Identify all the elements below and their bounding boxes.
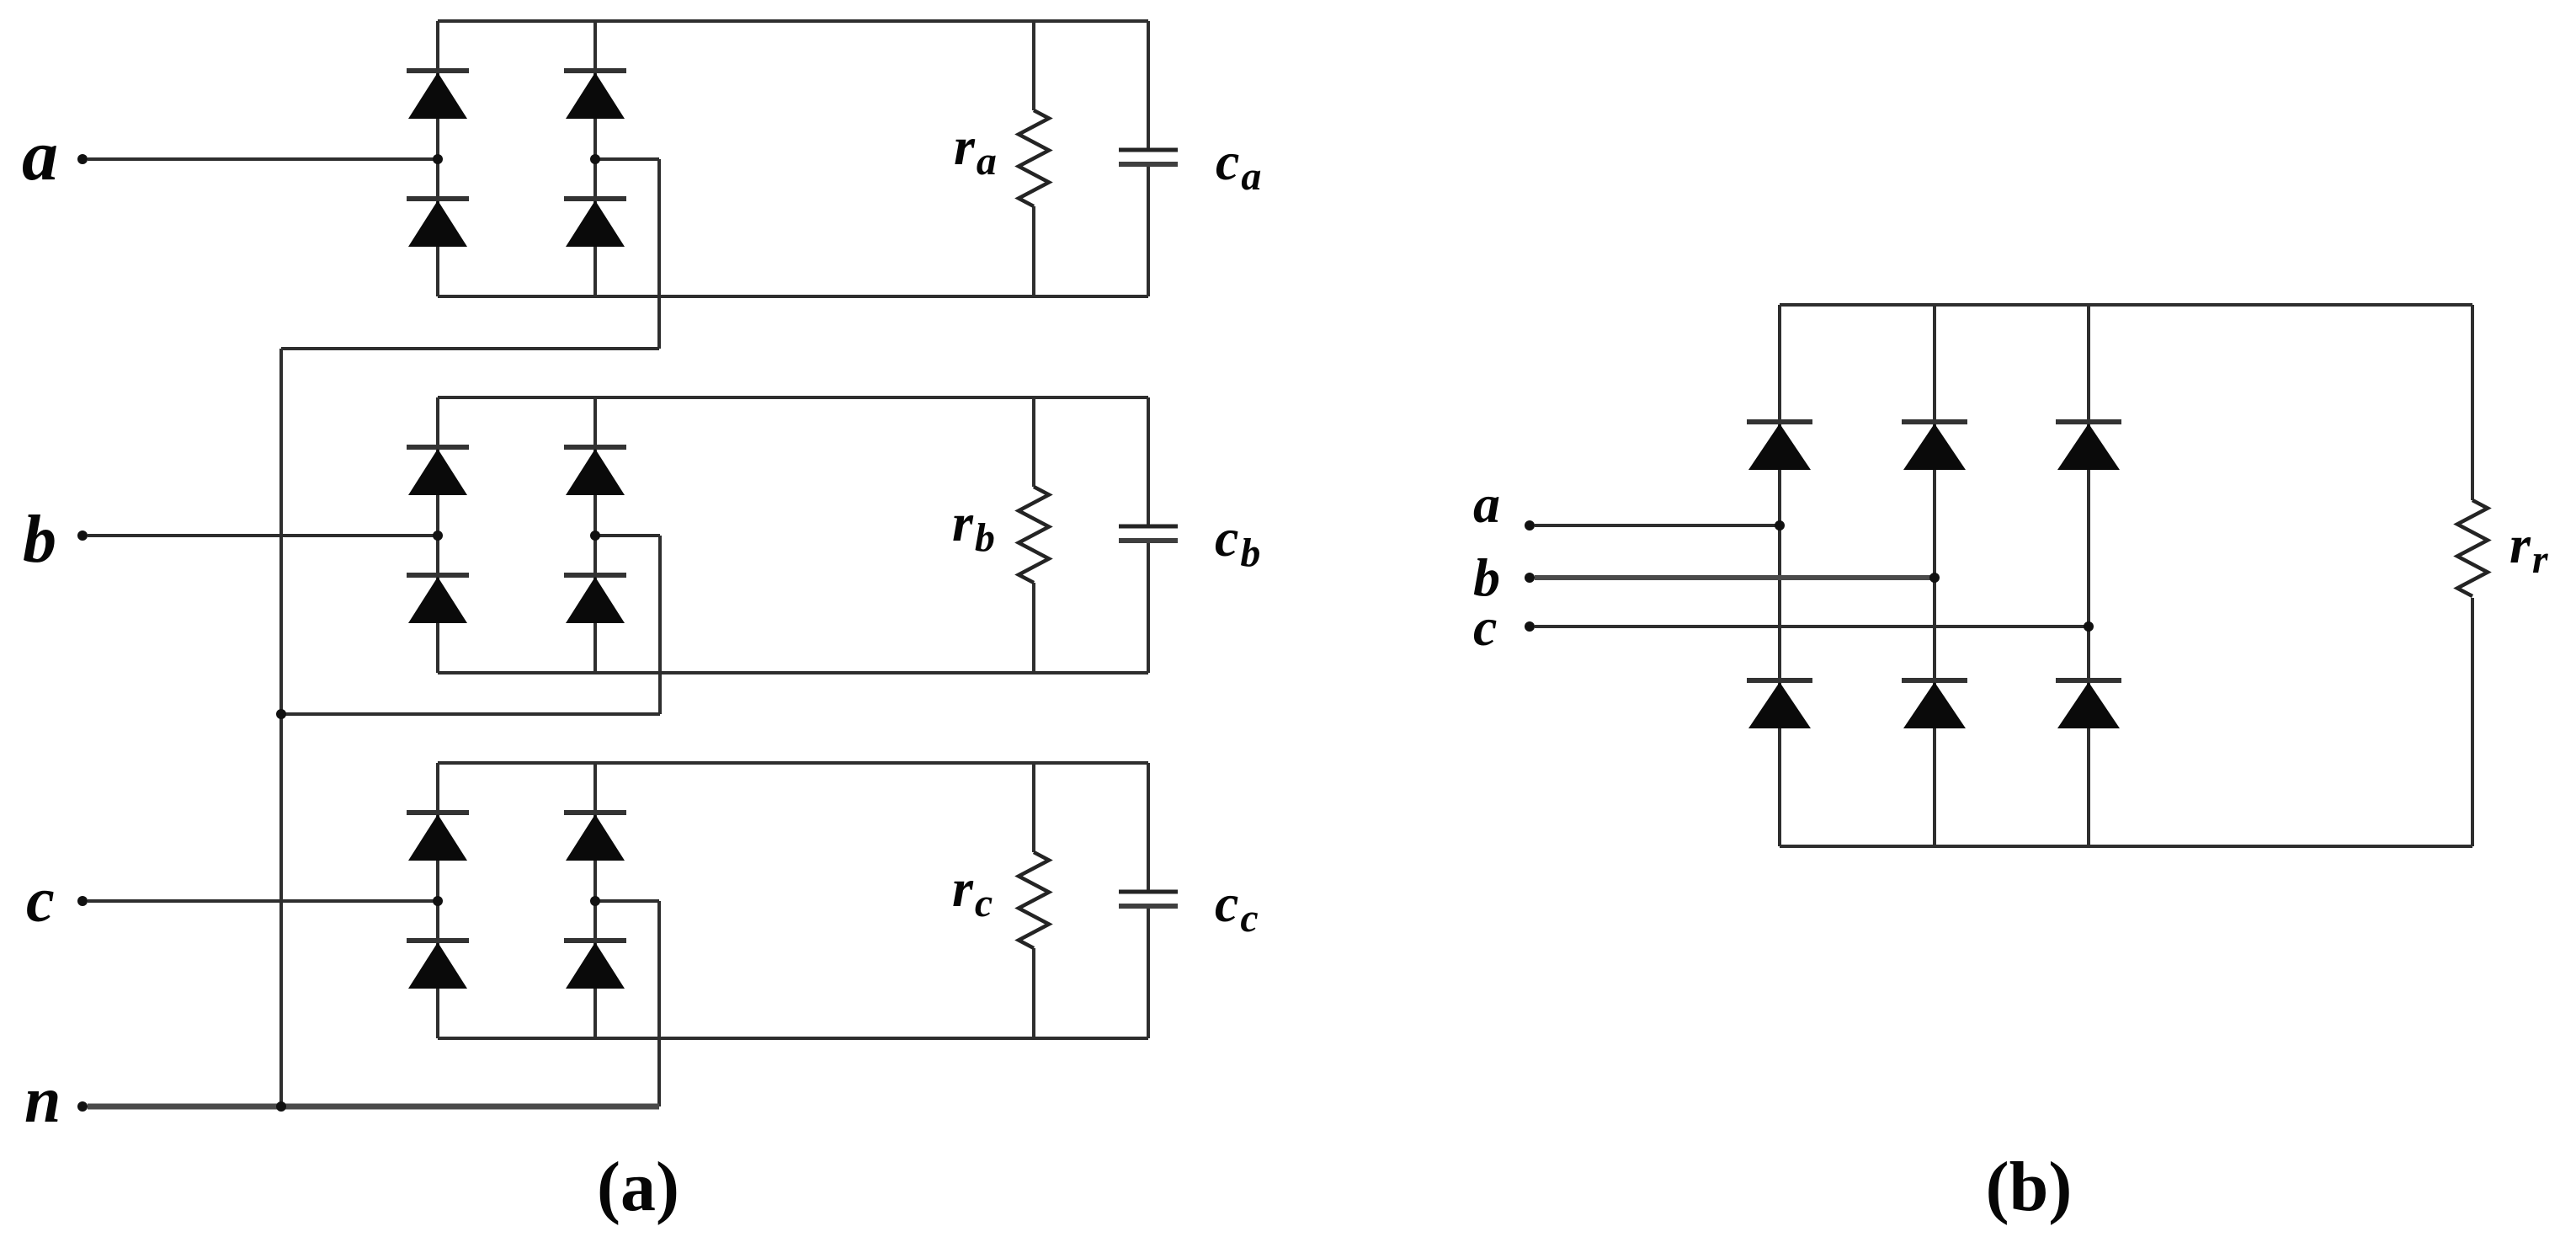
svg-text:a: a	[1473, 474, 1500, 534]
svg-text:c: c	[1473, 597, 1497, 657]
svg-text:(b): (b)	[1986, 1148, 2073, 1226]
svg-text:n: n	[24, 1063, 61, 1136]
svg-text:b: b	[23, 503, 56, 577]
svg-text:(a): (a)	[597, 1148, 679, 1226]
svg-text:a: a	[22, 115, 58, 195]
svg-text:c: c	[26, 865, 55, 936]
